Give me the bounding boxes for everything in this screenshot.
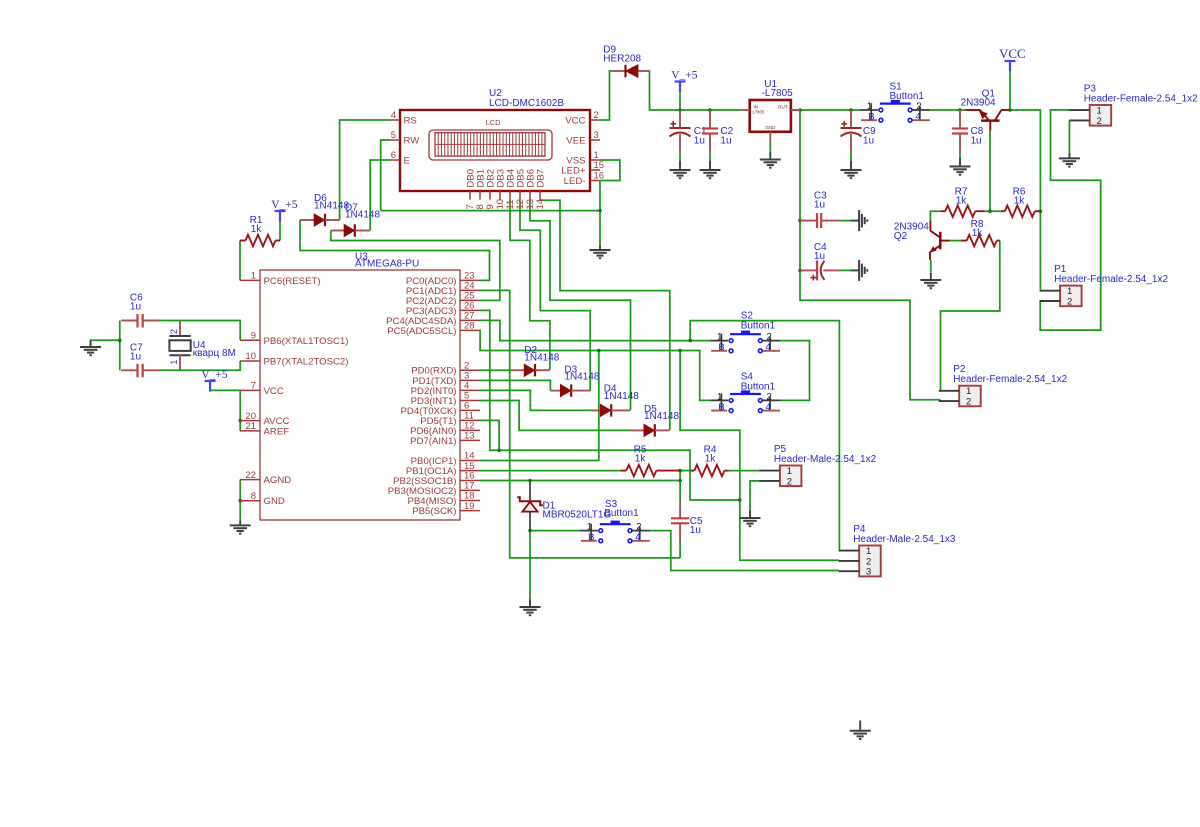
svg-text:14: 14 [535, 199, 546, 210]
ground floating bottom [859, 721, 861, 731]
svg-text:1u: 1u [694, 135, 705, 146]
U3 pin 21 AREF [240, 430, 260, 432]
U3 pin 2 PD0(RXD) [460, 369, 480, 371]
wire node to C5 top [679, 471, 681, 503]
U3 pin 8 GND [240, 500, 260, 502]
wire C6/C7 left rail [119, 321, 121, 371]
wire LCD RS to D6 cathode [340, 120, 391, 220]
svg-text:4: 4 [635, 532, 640, 543]
svg-text:PB5(SCK): PB5(SCK) [412, 506, 456, 517]
U2 pin 11 DB4 [509, 191, 511, 200]
U2 pin 1 VSS [590, 159, 600, 161]
svg-text:AREF: AREF [264, 426, 290, 437]
wire Q1 collector down to R7/R6 node [989, 131, 991, 212]
svg-text:1N4148: 1N4148 [524, 353, 559, 364]
svg-text:PC5(ADC5SCL): PC5(ADC5SCL) [387, 326, 456, 337]
wire PD3 to D5 anode [480, 401, 631, 431]
wire R7 right to node [985, 210, 1002, 212]
U2 pin 7 DB0 [469, 191, 471, 200]
ground at LCD LED- [599, 246, 601, 250]
svg-text:VCC: VCC [565, 116, 585, 127]
svg-text:Button1: Button1 [741, 321, 776, 332]
svg-text:1u: 1u [130, 352, 141, 363]
wire P3 pin2 to ground [1068, 121, 1070, 153]
svg-text:4: 4 [766, 342, 771, 353]
wire S2 node branch to P4 pin1 [690, 321, 839, 551]
svg-text:PB6(XTAL1TOSC1): PB6(XTAL1TOSC1) [264, 336, 349, 347]
svg-text:15: 15 [594, 160, 605, 171]
svg-text:2: 2 [767, 332, 772, 343]
header P4 Header-Male-2.54_1x3 [859, 546, 881, 577]
ground at C6/C7 [90, 340, 92, 347]
svg-text:1: 1 [587, 522, 592, 533]
U2 pin 2 VCC [590, 119, 600, 121]
U3 pin 6 PD4(T0XCK) [460, 409, 480, 411]
wire C6 to PB6 [160, 321, 240, 341]
svg-text:4: 4 [915, 112, 920, 123]
wire PD1 to D3 anode [480, 380, 550, 390]
svg-text:2: 2 [594, 110, 599, 121]
wire VCC stem [1009, 71, 1011, 111]
wire R8 right to P2 pin 1 [941, 241, 1000, 391]
ground at U1 [769, 152, 771, 160]
wire R4 to P5 pin1 [729, 470, 760, 472]
wire S1 pin2 to Q1 [930, 109, 965, 111]
junction dots [678, 108, 682, 112]
svg-text:L7805: L7805 [753, 110, 765, 115]
svg-text:LCD: LCD [486, 118, 502, 127]
svg-text:2: 2 [169, 329, 179, 334]
U3 pin 15 PB1(OC1A) [460, 470, 480, 472]
svg-text:3: 3 [594, 130, 599, 141]
svg-text:1u: 1u [690, 525, 701, 536]
svg-text:AGND: AGND [264, 475, 292, 486]
svg-text:GND: GND [765, 125, 776, 130]
svg-text:4: 4 [391, 110, 396, 121]
wire AGND/GND to ground [239, 480, 241, 521]
svg-text:6: 6 [391, 150, 396, 161]
wire VSS to LED- loop [600, 160, 620, 181]
wire C5 bottom to rail [679, 542, 681, 558]
wire S2 pin2 to S4 pin2 [780, 341, 809, 401]
svg-text:-L7805: -L7805 [762, 88, 794, 99]
ground at U3 GND [239, 520, 241, 525]
U3 pin 12 PD6(AIN0) [460, 429, 480, 431]
wire C7 to PB7 [160, 361, 240, 370]
svg-text:VCC: VCC [264, 386, 284, 397]
U2 pin 13 DB6 [529, 191, 531, 200]
svg-text:2: 2 [767, 391, 772, 402]
wire LCD VCC to D9 [600, 71, 611, 120]
U2 pin 15 LED+ [590, 169, 600, 171]
svg-text:1: 1 [169, 360, 179, 365]
U3 pin 4 PD2(INT0) [460, 389, 480, 391]
wire PC5 branch to P4 pin2 [680, 351, 839, 561]
header P1 Header-Female-2.54_1x2 [1060, 286, 1082, 307]
wire D9 to U1 IN rail [650, 71, 741, 110]
svg-text:OUT: OUT [778, 105, 788, 110]
svg-text:LED+: LED+ [561, 166, 586, 177]
wire V_+5 stem to rail [679, 92, 681, 111]
wire RW/LED- ground rail [381, 210, 600, 212]
svg-text:B: B [718, 342, 724, 353]
ground at C9 [850, 152, 852, 162]
U2 pin 12 DB5 [519, 191, 521, 200]
U3 pin 9 PB6(XTAL1TOSC1) [240, 339, 260, 341]
svg-text:1: 1 [717, 332, 722, 343]
svg-text:5: 5 [391, 130, 396, 141]
svg-text:B: B [868, 112, 874, 123]
wire PC1 to S3/C5 bottom rail [480, 290, 680, 558]
svg-text:GND: GND [264, 496, 285, 507]
ground at D1/S3 [529, 599, 531, 607]
svg-text:1: 1 [867, 101, 872, 112]
wire LCD RW down [381, 140, 391, 211]
svg-text:2: 2 [1067, 296, 1072, 307]
U3 pin 13 PD7(AIN1) [460, 439, 480, 441]
header P3 Header-Female-2.54_1x2 [1090, 105, 1112, 126]
svg-text:1N4148: 1N4148 [345, 210, 380, 221]
U3 pin 19 PB5(SCK) [460, 510, 480, 512]
svg-text:E: E [404, 156, 410, 167]
svg-text:Header-Male-2.54_1x3: Header-Male-2.54_1x3 [853, 534, 956, 545]
ground at P3 pin2 [1068, 153, 1070, 159]
U2 pin 8 DB1 [479, 191, 481, 200]
U3 pin 27 PC4(ADC4SDA) [460, 319, 480, 321]
wire LED- down to ground [599, 181, 601, 246]
svg-text:2: 2 [966, 397, 971, 408]
svg-text:1u: 1u [814, 251, 825, 262]
wire U1 OUT to S1 [791, 109, 860, 111]
svg-text:2N3904: 2N3904 [961, 98, 996, 109]
wire left rail to ground [91, 340, 120, 346]
U3 pin 23 PC0(ADC0) [460, 279, 480, 281]
U3 pin 22 AGND [240, 479, 260, 481]
svg-text:1N4148: 1N4148 [604, 391, 639, 402]
U3 pin 16 PB2(SSOC1B) [460, 480, 480, 482]
wire D7 anode to PC2 [331, 231, 500, 301]
svg-text:1: 1 [251, 271, 256, 282]
wire S3 pin2 to P4 pin3 [650, 531, 839, 571]
svg-text:LED-: LED- [564, 176, 586, 187]
U2 pin 10 DB3 [499, 191, 501, 200]
svg-text:Button1: Button1 [604, 508, 639, 519]
ground at C4 [859, 260, 867, 281]
svg-text:10: 10 [245, 351, 256, 362]
ground at C3 [859, 210, 867, 231]
svg-text:1N4148: 1N4148 [564, 372, 599, 383]
header P5 Header-Male-2.54_1x2 [780, 466, 802, 487]
wire V_+5 to VCC/AVCC/AREF [210, 390, 240, 431]
svg-text:21: 21 [245, 421, 256, 432]
wire D6 anode to PC0 [300, 220, 490, 280]
U3 pin 25 PC2(ADC2) [460, 299, 480, 301]
U3 pin 18 PB4(MISO) [460, 500, 480, 502]
svg-text:V_+5: V_+5 [271, 199, 298, 211]
wire D1 bottom junction to S3 pin1 [530, 530, 581, 532]
wire PC4 to S2 pin1 [480, 320, 711, 340]
svg-text:28: 28 [464, 321, 475, 332]
svg-text:22: 22 [245, 470, 256, 481]
header P2 Header-Female-2.54_1x2 [959, 386, 981, 407]
svg-text:B: B [588, 532, 594, 543]
svg-text:1k: 1k [1014, 195, 1026, 206]
svg-text:ATMEGA8-PU: ATMEGA8-PU [355, 259, 419, 270]
svg-text:PB7(XTAL2TOSC2): PB7(XTAL2TOSC2) [264, 357, 349, 368]
wire LCD E to D7 cathode [370, 160, 390, 231]
U2 pin 9 DB2 [489, 191, 491, 200]
svg-text:PD7(AIN1): PD7(AIN1) [410, 436, 456, 447]
svg-text:B: B [718, 402, 724, 413]
svg-text:1u: 1u [863, 135, 874, 146]
svg-text:DB7: DB7 [535, 169, 546, 187]
svg-text:RW: RW [404, 136, 421, 147]
wire LCD DB5 to D3 cathode [520, 200, 590, 391]
wire R1 left to PC6 [239, 241, 241, 281]
U3 pin 28 PC5(ADC5SCL) [460, 329, 480, 331]
svg-text:MBR0520LT1G: MBR0520LT1G [543, 509, 612, 520]
svg-text:Header-Male-2.54_1x2: Header-Male-2.54_1x2 [774, 454, 877, 465]
wire PD2 to D4 anode [480, 390, 591, 410]
svg-text:Header-Female-2.54_1x2: Header-Female-2.54_1x2 [953, 374, 1067, 385]
svg-text:4: 4 [766, 402, 771, 413]
wire P3 pin1 to P1 pin2 loop [1040, 110, 1101, 330]
wire LCD DB4 to D2 cathode [510, 200, 550, 371]
svg-text:13: 13 [464, 431, 475, 442]
IC U2 LCD-DMC1602B box [400, 110, 590, 191]
svg-text:8: 8 [251, 491, 256, 502]
svg-text:V_+5: V_+5 [671, 70, 698, 82]
U3 pin 24 PC1(ADC1) [460, 289, 480, 291]
ground at P5 pin2 [749, 510, 751, 518]
svg-text:Header-Female-2.54_1x2: Header-Female-2.54_1x2 [1084, 94, 1198, 105]
svg-text:1u: 1u [130, 302, 141, 313]
U3 pin 3 PD1(TXD) [460, 379, 480, 381]
ground at C8 [959, 152, 961, 159]
U2 pin 3 VEE [590, 139, 600, 141]
wire LCD DB7 to D5 cathode [540, 200, 670, 431]
svg-text:3: 3 [866, 567, 871, 578]
U2 pin 14 DB7 [539, 191, 541, 200]
svg-text:2: 2 [1097, 116, 1102, 127]
svg-text:1u: 1u [971, 135, 982, 146]
svg-text:2: 2 [787, 476, 792, 487]
U3 pin 14 PB0(ICP1) [460, 460, 480, 462]
U3 pin 10 PB7(XTAL2TOSC2) [240, 360, 260, 362]
wire PC3 long route [480, 310, 740, 500]
wire Q1 emitter to VCC junction and P1 pin 1 drop [1010, 110, 1041, 290]
svg-text:1N4148: 1N4148 [644, 411, 679, 422]
svg-text:1k: 1k [251, 224, 263, 235]
wire PC5 to S4 pin1 [480, 330, 711, 400]
U3 pin 17 PB3(MOSIOC2) [460, 489, 480, 491]
svg-text:Q2: Q2 [894, 231, 908, 242]
svg-text:2: 2 [916, 101, 921, 112]
U2 pin 4 RS [391, 119, 401, 121]
wire R5-R4 node [680, 470, 691, 472]
svg-text:1k: 1k [705, 454, 717, 465]
svg-text:19: 19 [464, 501, 475, 512]
wire D1 junction down to ground [529, 531, 531, 600]
wire Q2 collector to R7 left [930, 211, 940, 221]
svg-text:1u: 1u [720, 135, 731, 146]
U2 pin 6 E [391, 159, 401, 161]
U3 pin 1 PC6(RESET) [240, 279, 260, 281]
svg-text:PC6(RESET): PC6(RESET) [264, 276, 321, 287]
U3 pin 26 PC3(ADC3) [460, 309, 480, 311]
ground at Q2 [930, 273, 932, 280]
U3 pin 20 AVCC [240, 420, 260, 422]
svg-text:1: 1 [717, 391, 722, 402]
U2 pin 5 RW [391, 139, 401, 141]
wire P5 pin2 to ground [750, 481, 760, 510]
wire PB0 to node [480, 351, 599, 461]
wire LCD DB6 to D4 cathode [530, 200, 631, 411]
svg-text:кварц 8M: кварц 8M [193, 348, 236, 359]
wire PD0 to D2 anode [480, 369, 512, 371]
svg-text:Header-Female-2.54_1x2: Header-Female-2.54_1x2 [1054, 274, 1168, 285]
wire Q2 emitter to ground [930, 260, 932, 273]
wire PB1 to R5 [480, 470, 621, 472]
svg-text:HER208: HER208 [603, 54, 641, 65]
svg-text:16: 16 [594, 171, 605, 182]
svg-text:1k: 1k [635, 454, 647, 465]
svg-text:VCC: VCC [999, 46, 1026, 61]
svg-text:9: 9 [251, 331, 256, 342]
U3 pin 5 PD3(INT1) [460, 400, 480, 402]
svg-text:VEE: VEE [566, 136, 585, 147]
wire R1 right to V_+5 [279, 221, 281, 241]
U2 pin 16 LED- [590, 180, 600, 182]
svg-text:RS: RS [404, 116, 417, 127]
svg-text:LCD-DMC1602B: LCD-DMC1602B [489, 98, 564, 109]
U3 pin 11 PD5(T1) [460, 419, 480, 421]
wire PD5 to node [480, 420, 499, 450]
wire PB2 to D1 row [480, 480, 680, 482]
ground at C1 [679, 152, 681, 162]
svg-text:1u: 1u [814, 200, 825, 211]
IC U3 ATMEGA8-PU box [260, 270, 460, 520]
ground at C2 [709, 152, 711, 162]
wire +5 drop from U1 OUT to P2 pin 2 [800, 110, 941, 400]
svg-text:V_+5: V_+5 [201, 369, 228, 381]
svg-text:7: 7 [251, 381, 256, 392]
svg-text:2: 2 [636, 522, 641, 533]
U3 pin 7 VCC [240, 389, 260, 391]
